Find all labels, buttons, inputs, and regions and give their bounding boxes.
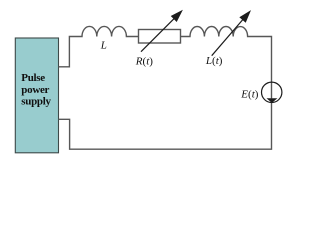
svg-text:R(t): R(t) (135, 55, 153, 67)
svg-text:L: L (100, 40, 107, 52)
svg-text:Pulse: Pulse (21, 72, 45, 84)
svg-text:supply: supply (21, 96, 51, 108)
svg-text:L(t): L(t) (205, 55, 223, 67)
svg-text:power: power (21, 84, 49, 96)
svg-text:E(t): E(t) (240, 88, 258, 100)
